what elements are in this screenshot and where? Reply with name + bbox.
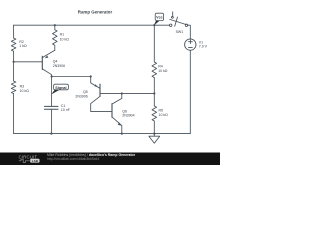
wire mid rail bbox=[52, 76, 91, 78]
svg-text:Signal: Signal bbox=[55, 86, 66, 90]
resistor R5 bbox=[152, 106, 157, 121]
wire V1 to switch bbox=[188, 25, 191, 39]
wire Vcc column to R4 bbox=[153, 25, 155, 62]
transistor Q4 emitter lead bbox=[42, 50, 55, 57]
wire left rail lower bbox=[13, 94, 15, 134]
wire junction to R3 bbox=[13, 62, 15, 81]
footer bar bbox=[0, 153, 220, 166]
wire signal column bbox=[51, 77, 53, 107]
node dot Q4 base junction bbox=[13, 61, 15, 63]
wire R2 to junction bbox=[13, 51, 15, 62]
svg-text:R1: R1 bbox=[60, 33, 65, 37]
wire top rail bbox=[14, 24, 170, 26]
resistor R1 bbox=[53, 25, 58, 50]
node dot Q5 emitter corner bbox=[90, 75, 92, 77]
svg-text:10 kΩ: 10 kΩ bbox=[159, 113, 169, 117]
transistor Q6 collector lead bbox=[112, 93, 122, 103]
ground symbol bbox=[149, 134, 160, 144]
svg-text:Vcc: Vcc bbox=[156, 16, 163, 20]
transistor Q6 emitter lead bbox=[112, 117, 122, 133]
svg-text:Q5: Q5 bbox=[83, 90, 88, 94]
wire Q5 collector to Q6 base bbox=[91, 110, 112, 112]
switch SW1 contact right bbox=[185, 24, 187, 26]
resistor R3 bbox=[11, 81, 16, 94]
svg-text:Q4: Q4 bbox=[53, 59, 58, 63]
wire right rail bbox=[154, 50, 190, 133]
resistor R4 bbox=[152, 62, 157, 78]
switch SW1 barb bbox=[175, 17, 178, 26]
svg-text:SW1: SW1 bbox=[176, 30, 184, 34]
capacitor C1 plate bottom bbox=[44, 108, 58, 110]
svg-text:R4: R4 bbox=[158, 65, 163, 69]
logo CircuitLab bbox=[19, 154, 40, 163]
node dot Q6 emitter bottom bbox=[121, 133, 123, 135]
transistor Q5 collector lead bbox=[91, 96, 100, 111]
svg-text:R3: R3 bbox=[20, 84, 25, 88]
net flag Signal bbox=[52, 84, 69, 94]
svg-text:10 kΩ: 10 kΩ bbox=[20, 89, 30, 93]
node dot Q6 collector junction bbox=[121, 92, 123, 94]
node dot C1 bottom bbox=[50, 133, 52, 135]
svg-text:LAB: LAB bbox=[32, 159, 39, 163]
svg-text:Ramp Generator: Ramp Generator bbox=[78, 9, 113, 14]
node dot Vcc junction bbox=[153, 24, 155, 26]
svg-text:7.9 V: 7.9 V bbox=[199, 45, 208, 49]
voltage source V1 bbox=[185, 39, 196, 50]
wire bottom rail bbox=[14, 133, 155, 135]
resistor R2 bbox=[11, 38, 16, 51]
V1 minus sign bbox=[189, 47, 193, 49]
wire C1 to bottom rail bbox=[51, 109, 53, 133]
net flag Vcc bbox=[154, 13, 163, 25]
transistor Q5 emitter lead bbox=[91, 77, 100, 89]
switch SW1 throw post bbox=[172, 12, 174, 16]
footer text bbox=[47, 153, 136, 161]
switch SW1 throw circle bbox=[172, 16, 174, 18]
V1 plus sign bbox=[189, 40, 193, 44]
wire Q5 base rail bbox=[100, 92, 154, 94]
transistor Q6 bar bbox=[111, 104, 113, 118]
svg-text:2N3904: 2N3904 bbox=[122, 113, 134, 117]
wire left rail upper bbox=[13, 25, 15, 38]
transistor Q4 emitter arrow bbox=[45, 56, 49, 59]
transistor Q4 bar bbox=[41, 56, 43, 69]
transistor Q5 emitter arrow bbox=[94, 84, 98, 87]
switch SW1 blade bbox=[170, 19, 187, 24]
svg-text:10 kΩ: 10 kΩ bbox=[60, 38, 70, 42]
node dot ground junction bbox=[153, 133, 155, 135]
wire Q4 base bbox=[14, 61, 43, 63]
svg-text:2N3906: 2N3906 bbox=[75, 94, 87, 98]
label C1 value bbox=[61, 104, 70, 112]
transistor Q6 emitter arrow bbox=[118, 122, 122, 125]
switch SW1 contact left bbox=[170, 24, 172, 26]
transistor Q5 bar bbox=[99, 84, 101, 96]
node dot R4 R5 junction bbox=[153, 92, 155, 94]
wire base rail to R5 bbox=[153, 93, 155, 106]
node dot R1 top bbox=[54, 24, 56, 26]
svg-text:1 kΩ: 1 kΩ bbox=[19, 44, 27, 48]
svg-text:2N3906: 2N3906 bbox=[53, 64, 65, 68]
svg-text:http://circuitlab.com/c6bab3kb: http://circuitlab.com/c6bab3kb5xd4 bbox=[47, 157, 99, 161]
wire R5 to ground bbox=[153, 121, 155, 134]
transistor Q4 collector lead bbox=[43, 69, 52, 77]
svg-text:10 kΩ: 10 kΩ bbox=[158, 69, 168, 73]
wire R4 to base rail bbox=[153, 78, 155, 94]
capacitor C1 plate top bbox=[44, 105, 58, 107]
svg-text:10 nF: 10 nF bbox=[61, 108, 70, 112]
node dot Q4 collector junction bbox=[51, 75, 53, 77]
svg-text:R5: R5 bbox=[159, 108, 164, 112]
